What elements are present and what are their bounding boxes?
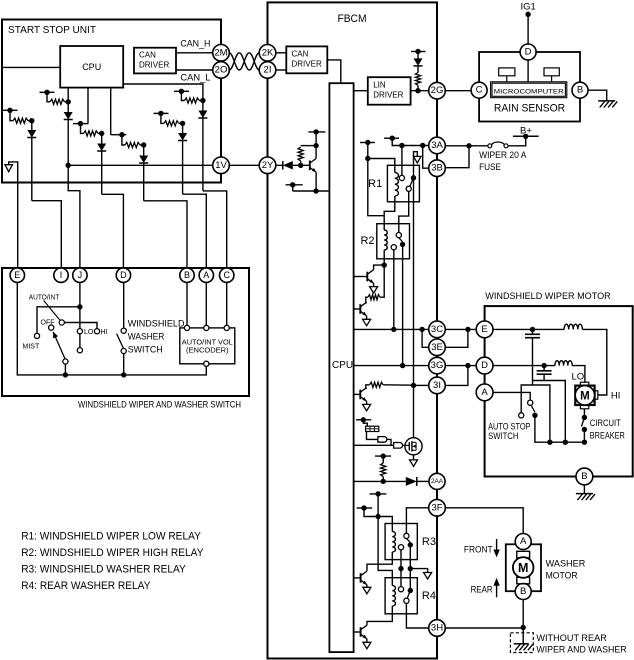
wire 3G to D motor [445,363,476,368]
wire Q6 collector [366,569,368,571]
wire Q7 collector [366,623,368,625]
buffer gate 2 [394,443,403,449]
svg-text:(ENCODER): (ENCODER) [186,346,229,355]
common wire (switch bottom) [17,282,206,377]
auto stop lever [531,405,535,412]
connector 1V [213,157,230,174]
wire fuse to B+ [508,136,526,146]
svg-text:BREAKER: BREAKER [590,430,625,441]
svg-text:C: C [223,270,230,280]
wire cell2 to J [68,165,80,268]
box FBCM [268,2,438,658]
label HI (switch) [101,329,108,336]
connector 3E [429,339,446,356]
wire cell6 to B [144,201,187,268]
connector D (rain sensor) [520,44,536,60]
wire pivot to junction row [535,415,587,445]
resistor cell3 [81,124,102,136]
inductor L1 [564,324,582,329]
connector 3A [429,137,446,154]
contact washer bottom [121,348,126,353]
connector B (rain sensor) [572,82,588,98]
diode D3 (2AA) [406,477,417,486]
svg-text:B: B [577,85,583,96]
connector 3C [429,321,446,338]
contact R2 aux [391,245,396,250]
resistor R(Q3) [366,265,384,303]
svg-text:OFF: OFF [41,319,55,326]
wire CPU right pin to cell4 [123,84,203,101]
stub B (R1 contact feed) [384,136,399,141]
resistor cell5 stub [154,111,169,116]
wire Q4 collector [365,388,368,389]
wire Q2 emitter [373,283,375,286]
wire B motor ground [583,485,585,494]
wire diode to Q1 base [293,163,310,168]
wire 1V to 2Y [229,164,259,166]
svg-text:RAIN SENSOR: RAIN SENSOR [494,103,565,115]
auto stop pivot [532,413,537,418]
connector A (washer motor) [515,534,531,550]
contact MIST [34,333,39,338]
label FRONT [464,545,493,556]
stub (R3 coil feed) [357,505,373,510]
ground (rain sensor) [598,101,617,108]
wire Q1 collector node [313,132,318,159]
transistor Q4 [354,388,367,402]
wire Q6 emitter [366,585,368,588]
svg-text:3C: 3C [431,324,443,335]
stub A (relay coil feed) [360,140,375,145]
wire 3E tie right [445,329,468,347]
svg-text:CAN: CAN [292,50,309,59]
wire oscillator to buffer [367,432,378,440]
label OFF [41,319,55,326]
wire stubA to R2 coil [368,159,384,216]
contact R1 fixed [399,146,404,181]
wire LIN driver to 2G [411,88,429,93]
svg-text:3A: 3A [431,140,443,151]
continuation arrow (Q4 emitter) [363,404,371,411]
svg-text:MIST: MIST [23,344,40,351]
svg-text:B: B [184,270,190,280]
wire 1V net [66,163,213,168]
wire CAN_L to 2O [176,69,213,71]
wire L2 to LO [572,366,585,383]
svg-text:CPU: CPU [332,360,353,371]
inductor L2 [555,361,572,366]
circuit breaker [581,409,587,442]
wire R4 main to 3H [406,603,428,628]
washer switch lever [117,334,124,349]
svg-text:R4: R4 [422,590,436,602]
wire C to encoder [226,282,228,325]
transistor Q6 [354,571,367,585]
wire 2G to C [445,90,471,92]
resistor cell3 stub [73,121,88,126]
svg-text:M: M [580,390,590,402]
svg-text:REAR: REAR [471,584,493,595]
svg-text:SWITCH: SWITCH [488,431,518,442]
legend relay list [21,531,204,593]
svg-text:R2: WINDSHIELD WIPER HIGH RELA: R2: WINDSHIELD WIPER HIGH RELAY [21,547,204,559]
svg-text:MICROCOMPUTER: MICROCOMPUTER [494,89,564,96]
wire A to auto stop switch [493,392,530,400]
contact LO lower [77,348,82,353]
svg-text:FRONT: FRONT [464,545,493,556]
svg-text:WIPER 20 A: WIPER 20 A [479,150,527,161]
terminal B+ [513,134,539,139]
svg-text:CAN: CAN [139,51,156,60]
wire cell5 to A [183,194,207,268]
svg-text:CAN_H: CAN_H [180,39,210,49]
wire 3A to fuse [445,143,489,148]
wire 2K to CAN driver [276,52,287,54]
leader line AUTO/INT [44,301,61,321]
svg-text:2I: 2I [264,65,272,76]
resistor cell5 [161,113,183,126]
svg-text:C: C [476,85,483,96]
wire CPU pin to cell3 [87,88,89,124]
continuation arrow (Q6 emitter) [363,587,371,594]
wire Q4 emitter [366,401,368,404]
svg-text:R3: WINDSHIELD WASHER RELAY: R3: WINDSHIELD WASHER RELAY [21,563,186,575]
resistor R(Q4) [366,382,414,389]
box windshield wiper and washer switch [2,268,249,396]
wire Q3 emitter [366,316,368,320]
contact washer top [121,328,126,333]
connector B (switch) [180,268,194,282]
microcomputer box [491,82,567,98]
svg-text:AUTO/INT: AUTO/INT [29,295,60,302]
contact auto stop aux [519,413,524,418]
relay R3 arm and pivot [406,539,413,548]
svg-text:A: A [481,387,488,398]
box START STOP UNIT [2,20,221,183]
wire R4 coil to Q7 collector [367,606,392,623]
contact R2 fixed [396,233,401,238]
contact LO [77,329,82,334]
wire B to ground [588,90,607,101]
svg-text:CPU: CPU [82,62,101,72]
contact R1 aux [406,186,411,191]
wire E rail [493,327,564,332]
wire caps to junction row [544,381,565,443]
continuation arrow (Q3 emitter) [363,319,371,326]
contact AUTO/INT [59,320,64,325]
continuation arrow (Q2 emitter) [370,287,378,294]
svg-text:3G: 3G [431,360,444,371]
wire CPU pin to cell2 [67,88,69,102]
svg-text:CIRCUIT: CIRCUIT [590,418,621,429]
relay R4 box [385,578,417,614]
label AUTO STOP SWITCH [488,422,530,442]
resistor cell6 stub [111,132,127,137]
stub (2G pullup) [411,49,426,54]
svg-text:FUSE: FUSE [479,162,501,173]
wire cell4 to C [203,191,227,268]
svg-text:J: J [78,270,83,280]
label R3 [422,536,436,548]
svg-text:SWITCH: SWITCH [128,345,163,355]
diode (2G pullup) [414,52,423,73]
contact encoder A [204,325,209,330]
resistor cell1 [10,110,32,123]
wire washer B down [521,600,526,644]
switch lever with arrow [53,332,65,359]
svg-text:LIN: LIN [373,81,386,90]
svg-text:A: A [203,270,209,280]
contact encoder B [184,325,189,330]
relay R4 arm and pivot [407,588,413,599]
wire R3 coil to Q6 collector [367,552,392,569]
svg-text:WINDSHIELD: WINDSHIELD [128,319,185,329]
relay R4 coil [392,586,395,607]
svg-text:D: D [525,47,532,58]
wire stub to R4 coil [375,494,392,586]
svg-text:DRIVER: DRIVER [373,91,403,100]
wire CPU pin to cell6 [110,88,112,135]
svg-text:B+: B+ [520,125,532,136]
svg-text:3E: 3E [431,342,443,353]
zener diode cell1 [27,118,36,201]
LIN driver U5 [368,77,411,105]
contact OFF [49,325,54,330]
continuation arrow (start stop unit) [5,162,18,268]
oscillator component [363,420,379,432]
contact auto stop fixed [528,400,533,405]
continuation arrow (Q7 emitter) [363,642,371,649]
mosfet Q5 [403,438,423,455]
wire 3A net [392,138,429,148]
svg-text:3I: 3I [433,380,441,391]
continuation arrow (washer relays) [424,573,432,580]
box RAIN SENSOR [479,52,580,122]
connector E (wiper motor) [476,321,493,338]
svg-text:START STOP UNIT: START STOP UNIT [8,25,96,36]
svg-text:DRIVER: DRIVER [139,61,169,70]
label WITHOUT REAR WIPER AND WASHER [536,633,626,656]
connector E (switch) [10,268,24,282]
relay R3 coil [392,532,395,553]
fuse WIPER 20 A [488,142,508,148]
wire to switch E [17,267,19,269]
wire B to encoder [186,282,188,325]
connector 2AA [429,473,445,489]
wire buffer1 to buffer2 [387,439,391,445]
wire 3I tie right [445,366,468,386]
label MIST [23,344,40,351]
wire 3I to corridor [414,384,429,386]
encoder AUTO/INT VOL [180,328,235,364]
wire IG1 to D [525,12,530,45]
arrow FRONT [493,539,499,557]
relay R1 box [387,165,419,202]
svg-text:2Y: 2Y [262,160,274,171]
wire 3F to washer A [445,508,523,534]
svg-text:LO: LO [84,329,94,336]
sensor element left [499,68,515,82]
label WINDSHIELD WASHER SWITCH [128,319,185,355]
svg-text:R3: R3 [422,536,436,548]
relay R1 coil [395,173,399,197]
svg-text:3B: 3B [431,163,443,174]
label LO (switch) [84,329,94,336]
diode D2 (2Y input) [283,161,293,170]
wire 2Y to diode [276,164,283,166]
svg-text:1V: 1V [215,160,227,171]
label R2 [360,235,374,247]
svg-text:I: I [60,270,63,280]
svg-text:R4: REAR WASHER RELAY: R4: REAR WASHER RELAY [21,580,151,592]
connector C (rain sensor) [471,82,487,98]
wire aux row to arrow [410,569,427,573]
contact R3 fixed [404,533,409,538]
box windshield wiper motor [485,306,633,476]
ground (washer motor) [514,644,533,651]
contact encoder common [204,361,209,366]
wire A to encoder [205,282,207,325]
continuation arrow (mosfet source) [410,460,418,467]
transistor Q7 [354,625,367,639]
stub Q1 collector [308,129,325,134]
relay R2 arm and pivot [399,238,406,247]
transistor Q3 [354,302,367,316]
wire CPU to 3C [354,327,429,332]
CAN driver U3 (start stop unit) [134,48,176,74]
wire R2 coil to Q2 collector [382,250,387,268]
label WINDSHIELD WIPER AND WASHER SWITCH [78,400,241,411]
stub (2AA resistor) [375,453,391,458]
connector D (switch) [116,268,130,282]
resistor cell1 stub [3,108,18,113]
connector A (wiper motor) [476,384,493,401]
wire R1 aux to R2 fixed [399,191,409,232]
wire washer to common [123,354,125,375]
label CAN_L [180,73,210,83]
svg-text:FBCM: FBCM [337,13,366,25]
zener diode cell6 [139,142,148,201]
wire CPU left to frame [3,66,60,68]
sensor element right [544,68,559,82]
svg-text:WINDSHIELD WIPER MOTOR: WINDSHIELD WIPER MOTOR [485,291,611,302]
svg-text:LO: LO [572,371,585,382]
connector J (switch) [73,268,87,282]
relay R1 arm and pivot [410,175,416,186]
connector 3I [429,377,446,394]
zener diode cell2 [64,99,73,165]
wire stubA to R1 coil [365,143,395,173]
CPU U1 (FBCM) [329,83,353,652]
buffer gate 1 [378,437,387,443]
label B+ [520,125,532,136]
wire R2 pivot to 3G [402,244,404,365]
connector 3F [429,500,446,517]
contact R4 main [404,598,409,603]
label WINDSHIELD WIPER MOTOR [485,291,611,302]
arrow REAR [493,578,499,597]
relay R2 box [377,224,410,259]
svg-text:3H: 3H [431,623,443,634]
CAN driver U4 (FBCM) [286,46,327,73]
wire D to washer switch [123,282,125,328]
zener diode cell4 [198,98,207,191]
contact R4 aux [398,587,403,592]
wire L1 to HI [582,329,606,395]
label R1 [368,178,382,190]
svg-text:E: E [481,324,487,335]
connector 2O [213,62,230,79]
wire 3F to R3 fixed [406,508,428,534]
resistor cell4 stub [174,89,189,94]
connector 2I [259,62,276,79]
resistor R(Q1) [298,146,316,166]
wire mosfet source arrow [413,455,415,460]
ground (wiper motor) [576,494,595,501]
wire R1 coil to R2 coil [384,196,395,230]
wire Q3 collector [365,302,368,303]
wire J to LO contact [77,282,82,328]
stub Q1 emitter [286,182,303,191]
wire diode to 2AA [417,480,429,482]
wire 3B to fuse node [445,146,469,168]
svg-text:WASHER: WASHER [546,558,586,569]
label LO (motor) [572,371,585,382]
svg-text:2O: 2O [215,65,228,76]
connector I (switch) [54,268,68,282]
label HI (motor) [611,390,621,401]
wire Q7 emitter [366,639,368,643]
wire 3H to washer B [445,627,523,629]
label REAR [471,584,493,595]
wire R3 aux down [398,550,403,587]
svg-text:D: D [481,360,488,371]
svg-text:B: B [581,471,587,482]
connector D (wiper motor) [476,357,493,374]
resistor cell4 [181,91,203,103]
connector 2K [259,45,276,62]
svg-text:B: B [520,586,526,597]
svg-text:MOTOR: MOTOR [546,570,578,581]
svg-text:IG1: IG1 [520,2,535,13]
svg-text:2K: 2K [262,47,274,58]
svg-text:WIPER AND WASHER: WIPER AND WASHER [536,645,626,656]
wire lever to common [64,364,66,375]
connector B (washer motor) [515,584,531,600]
svg-text:A: A [520,536,527,547]
continuation arrow (3A) [414,152,422,178]
stub (R4 coil feed) [370,491,387,496]
wire 3E tie [422,329,429,347]
wire C2 down [533,374,545,380]
wire cell1 to I [32,201,62,268]
svg-text:2AA: 2AA [431,478,444,485]
label CIRCUIT BREAKER [590,418,625,441]
connector A (switch) [199,268,213,282]
svg-text:HI: HI [611,390,621,401]
wire CPU to buffer 2 [354,444,394,446]
capacitor C2 [537,366,552,375]
svg-text:R1: WINDSHIELD WIPER LOW RELAY: R1: WINDSHIELD WIPER LOW RELAY [21,531,201,543]
svg-text:DRIVER: DRIVER [292,60,322,69]
svg-text:D: D [120,270,127,280]
svg-text:E: E [14,270,20,280]
svg-text:R2: R2 [360,235,374,247]
relay R3 box [385,524,417,560]
svg-text:2M: 2M [214,47,227,58]
connector 2G [429,82,446,99]
svg-text:M: M [518,561,528,575]
